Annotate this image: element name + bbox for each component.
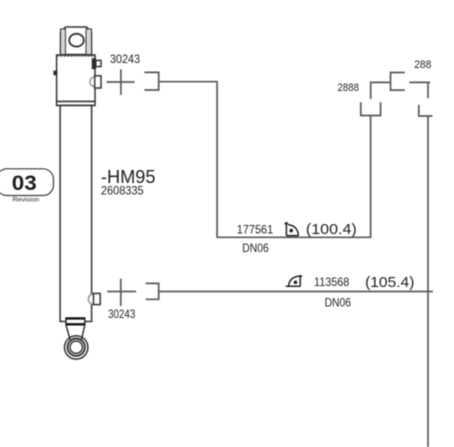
svg-text:(105.4): (105.4) [365,274,414,291]
svg-text:(100.4): (100.4) [306,221,357,238]
svg-text:DN06: DN06 [325,297,351,309]
svg-text:30243: 30243 [110,54,140,66]
svg-text:30243: 30243 [108,309,135,321]
svg-text:DN06: DN06 [242,243,268,255]
svg-text:288: 288 [414,59,431,71]
svg-text:03: 03 [12,172,37,195]
svg-text:177561: 177561 [237,223,274,237]
svg-text:Revision: Revision [13,197,40,204]
svg-text:2608335: 2608335 [101,184,144,198]
svg-text:113568: 113568 [314,275,350,289]
svg-text:2888: 2888 [338,82,360,94]
